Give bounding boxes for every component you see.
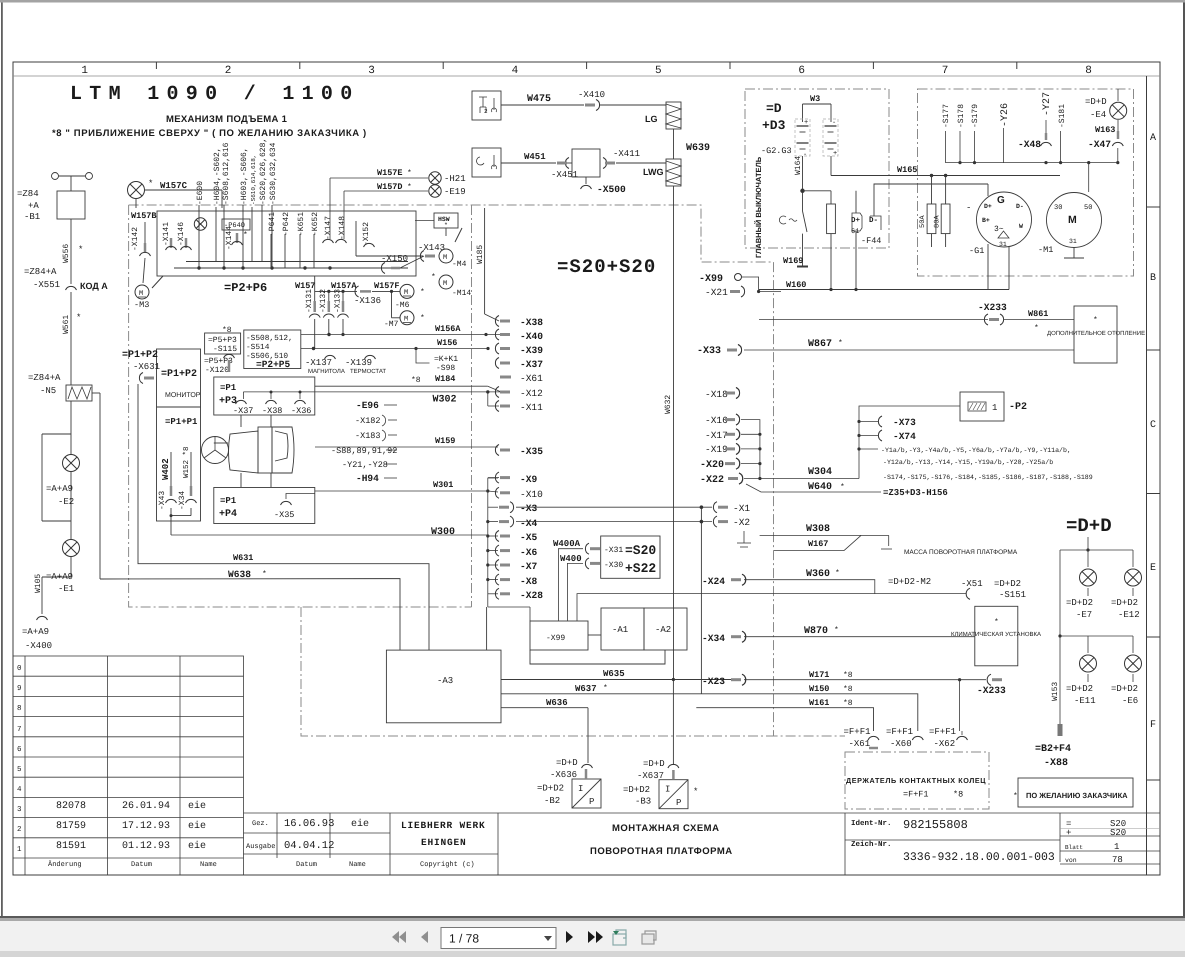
connector X400: [37, 616, 48, 620]
svg-text:Name: Name: [200, 861, 217, 869]
svg-text:Datum: Datum: [296, 861, 317, 869]
svg-text:ДЕРЖАТЕЛЬ КОНТАКТНЫХ КОЛЕЦ: ДЕРЖАТЕЛЬ КОНТАКТНЫХ КОЛЕЦ: [846, 776, 986, 785]
svg-text:*: *: [1013, 792, 1018, 801]
svg-text:5: 5: [655, 65, 662, 77]
connector X10: [495, 487, 510, 498]
svg-text:-P642: -P642: [282, 212, 291, 236]
main battery switch (главный выключатель): [779, 189, 835, 290]
device box климатическая установка: [975, 606, 1018, 666]
svg-text:-X1: -X1: [733, 503, 750, 514]
svg-text:ПОВОРОТНАЯ ПЛАТФОРМА: ПОВОРОТНАЯ ПЛАТФОРМА: [590, 846, 733, 857]
connector X9: [495, 472, 510, 483]
svg-text:-X23: -X23: [702, 676, 725, 687]
svg-text:=S20+S20: =S20+S20: [557, 256, 656, 278]
svg-text:-X99: -X99: [699, 274, 723, 285]
svg-text:=Z84: =Z84: [17, 189, 39, 199]
svg-text:=A+A9: =A+A9: [46, 484, 73, 494]
svg-text:-X40: -X40: [520, 331, 543, 342]
svg-text:-X137: -X137: [305, 358, 332, 368]
terminal X88 (=B2+F4): [1058, 724, 1063, 736]
svg-text:=B2+F4: =B2+F4: [1035, 744, 1071, 755]
svg-text:-Y27: -Y27: [1042, 92, 1053, 116]
connectors X61 X60 X62 (=F+F1): [844, 727, 957, 749]
svg-text:*: *: [78, 245, 83, 255]
revision table and title block: [13, 656, 1160, 875]
svg-text:01.12.93: 01.12.93: [122, 841, 170, 852]
svg-text:-X410: -X410: [578, 90, 605, 100]
svg-text:-M3: -M3: [134, 300, 149, 310]
svg-text:-X34: -X34: [178, 491, 187, 510]
svg-text:A: A: [1150, 133, 1156, 144]
svg-text:W152 *8: W152 *8: [182, 446, 191, 478]
svg-text:-X139: -X139: [345, 358, 372, 368]
svg-text:W632: W632: [664, 395, 673, 414]
svg-text:W157F: W157F: [374, 281, 400, 291]
svg-text:-E2: -E2: [58, 497, 74, 507]
svg-text:-X133: -X133: [334, 289, 343, 313]
svg-text:-Y26: -Y26: [1000, 103, 1011, 127]
svg-text:=P1: =P1: [220, 383, 237, 393]
connector X38: [495, 316, 510, 327]
svg-text:*: *: [444, 222, 448, 229]
svg-text:*: *: [603, 684, 608, 693]
svg-text:КЛИМАТИЧЕСКАЯ УСТАНОВКА: КЛИМАТИЧЕСКАЯ УСТАНОВКА: [951, 631, 1041, 638]
svg-text:-S179: -S179: [971, 104, 980, 128]
svg-text:-X24: -X24: [702, 576, 725, 587]
svg-text:-Y1a/b,-Y3,-Y4a/b,-Y5,-Y6a/b,-: -Y1a/b,-Y3,-Y4a/b,-Y5,-Y6a/b,-Y7a/b,-Y9,…: [881, 447, 1071, 454]
svg-text:=P1+P2: =P1+P2: [161, 369, 197, 380]
svg-text:C: C: [1150, 420, 1156, 431]
svg-text:-A2: -A2: [655, 625, 671, 635]
svg-text:*: *: [1093, 316, 1098, 325]
svg-text:2: 2: [225, 65, 232, 77]
svg-text:-X37: -X37: [233, 406, 253, 416]
svg-text:26.01.94: 26.01.94: [122, 801, 170, 812]
svg-text:*: *: [1034, 324, 1039, 333]
connector X3: [499, 502, 514, 513]
svg-text:-X88: -X88: [1044, 758, 1068, 769]
svg-text:W451: W451: [524, 152, 546, 162]
svg-text:B+: B+: [982, 217, 990, 224]
svg-text:-X20: -X20: [700, 460, 724, 471]
svg-text:W631: W631: [233, 553, 253, 563]
svg-text:-M7: -M7: [384, 320, 399, 329]
svg-text:=F+F1: =F+F1: [903, 790, 929, 800]
svg-text:-S181: -S181: [1058, 104, 1067, 128]
svg-text:-G2.G3: -G2.G3: [761, 146, 792, 156]
svg-text:=D+D2: =D+D2: [537, 784, 564, 794]
svg-text:9: 9: [17, 684, 22, 693]
svg-text:50: 50: [1084, 204, 1092, 212]
svg-text:ТЕРМОСТАТ: ТЕРМОСТАТ: [350, 368, 386, 375]
svg-text:ГЛАВНЫЙ ВЫКЛЮЧАТЕЛЬ: ГЛАВНЫЙ ВЫКЛЮЧАТЕЛЬ: [754, 156, 763, 258]
svg-text:W: W: [1019, 223, 1023, 230]
svg-text:*8 " ПРИБЛИЖЕНИЕ СВЕРХУ " ( П: *8 " ПРИБЛИЖЕНИЕ СВЕРХУ " ( ПО ЖЕЛАНИЮ З…: [52, 128, 367, 139]
svg-text:3336-932.18.00.001-003: 3336-932.18.00.001-003: [903, 851, 1055, 864]
starter motor M1: [1047, 193, 1102, 248]
=D+D3 box: [745, 89, 889, 248]
device list E96 X182 X183 S88 Y21 H94: [331, 400, 397, 484]
motors M6 and M7 wiring: [315, 276, 400, 318]
svg-text:*8: *8: [953, 790, 963, 800]
lamps E7 E12 E11 E6 wiring (=D+D): [1058, 537, 1133, 724]
lamp E1 (=A+A9): [63, 540, 80, 557]
svg-text:*: *: [994, 618, 999, 627]
svg-text:Name: Name: [349, 861, 366, 869]
svg-text:LTM 1090 / 1100: LTM 1090 / 1100: [70, 83, 360, 106]
svg-text:-X147: -X147: [324, 216, 333, 240]
svg-text:-X74: -X74: [893, 431, 916, 442]
svg-text:eie: eie: [188, 800, 206, 812]
svg-text:W475: W475: [527, 94, 551, 105]
wires W156A/W156/W184/W302/W159/W301/W300: [171, 335, 530, 622]
svg-text:Copyright (c): Copyright (c): [420, 860, 475, 869]
resistor N5: [66, 385, 92, 401]
svg-text:-E12: -E12: [1118, 610, 1140, 620]
svg-text:*8: *8: [411, 376, 421, 385]
=S20 region big boundary: [129, 205, 845, 736]
svg-text:W639: W639: [686, 143, 710, 154]
svg-text:W157E: W157E: [377, 168, 403, 178]
svg-text:W561: W561: [62, 315, 71, 334]
svg-text:-X132: -X132: [319, 289, 328, 313]
svg-text:=D+D2-M2: =D+D2-M2: [888, 577, 931, 587]
svg-text:*: *: [834, 626, 839, 635]
svg-text:1: 1: [1114, 842, 1119, 852]
svg-text:P: P: [589, 797, 594, 807]
wire W157E / W157D to lamps H21 / E19: [330, 178, 428, 239]
svg-text:-Y21,-Y28: -Y21,-Y28: [342, 460, 388, 470]
svg-text:=F+F1: =F+F1: [929, 727, 956, 737]
svg-text:=P5+P3: =P5+P3: [208, 336, 237, 345]
P2+P6 box: [157, 211, 416, 276]
connector X4: [499, 516, 514, 527]
svg-text:-S115: -S115: [213, 345, 237, 354]
svg-text:W157C: W157C: [160, 181, 188, 191]
svg-text:-B3: -B3: [635, 797, 651, 807]
svg-text:eie: eie: [188, 840, 206, 852]
svg-text:W400A: W400A: [553, 539, 581, 549]
svg-text:04.04.12: 04.04.12: [284, 840, 334, 852]
svg-text:78: 78: [1112, 855, 1123, 865]
lamp W157C: [128, 182, 145, 199]
svg-text:=D+D: =D+D: [643, 759, 665, 769]
svg-text:-S88,89,91,92: -S88,89,91,92: [331, 446, 397, 456]
svg-text:M: M: [443, 254, 447, 262]
lamp E6: [1125, 655, 1142, 672]
svg-text:-M6: -M6: [395, 301, 410, 310]
svg-text:61: 61: [851, 228, 859, 236]
svg-text:-X10: -X10: [520, 489, 543, 500]
svg-text:81759: 81759: [56, 821, 86, 832]
connector X73: [878, 416, 882, 427]
letters column: [1146, 76, 1148, 875]
w640 diagonal: [746, 484, 881, 492]
svg-text:=P1: =P1: [220, 496, 237, 506]
svg-text:W635: W635: [603, 669, 625, 679]
svg-text:50A: 50A: [919, 215, 927, 228]
svg-text:-X38: -X38: [262, 406, 282, 416]
svg-text:2: 2: [17, 825, 22, 834]
svg-text:ДОПОЛНИТЕЛЬНОЕ ОТОПЛЕНИЕ: ДОПОЛНИТЕЛЬНОЕ ОТОПЛЕНИЕ: [1047, 330, 1145, 337]
svg-text:W165: W165: [897, 165, 917, 175]
svg-text:M: M: [1068, 214, 1077, 226]
svg-text:W153: W153: [1051, 682, 1060, 701]
w304 vertical to P2: [859, 406, 960, 479]
relay contact F44: [852, 184, 988, 290]
svg-text:1: 1: [17, 846, 22, 854]
svg-text:-H604,-S602,: -H604,-S602,: [213, 147, 222, 205]
svg-text:W637: W637: [575, 684, 597, 694]
svg-text:-S620,626,628,: -S620,626,628,: [259, 138, 268, 205]
svg-text:=P1+P1: =P1+P1: [165, 417, 198, 427]
svg-text:-X120: -X120: [205, 366, 229, 375]
svg-text:W861: W861: [1028, 309, 1048, 319]
svg-text:-X12: -X12: [520, 388, 543, 399]
connector X5: [495, 531, 510, 542]
svg-text:-X148: -X148: [338, 216, 347, 240]
svg-text:-M4: -M4: [452, 260, 467, 269]
svg-text:-: -: [966, 203, 971, 213]
svg-text:*: *: [76, 313, 81, 323]
svg-text:W156: W156: [437, 338, 457, 348]
svg-text:I: I: [578, 784, 583, 794]
svg-text:D-: D-: [869, 217, 878, 225]
svg-text:W159: W159: [435, 436, 455, 446]
svg-text:-X43: -X43: [158, 491, 167, 510]
svg-text:4: 4: [512, 65, 519, 77]
svg-text:-P2: -P2: [1009, 402, 1027, 413]
svg-text:30: 30: [1054, 204, 1062, 212]
svg-text:-E96: -E96: [356, 400, 379, 411]
connector X7: [495, 560, 510, 571]
svg-text:-X38: -X38: [520, 317, 543, 328]
svg-text:=F+F1: =F+F1: [844, 727, 871, 737]
svg-text:+: +: [804, 119, 808, 127]
device HSW: [434, 213, 458, 228]
svg-text:=D+D2: =D+D2: [994, 579, 1021, 589]
svg-text:D+: D+: [984, 203, 992, 210]
svg-text:-X500: -X500: [597, 184, 626, 195]
device B1: [57, 191, 85, 219]
svg-text:G: G: [997, 195, 1005, 206]
svg-text:-X146: -X146: [177, 222, 186, 246]
svg-text:=A+A9: =A+A9: [22, 627, 49, 637]
svg-text:=Z84+A: =Z84+A: [24, 267, 57, 277]
column ticks: [155, 62, 157, 69]
wire W157 / W157A / W157F row: [295, 281, 400, 291]
connector X11: [495, 401, 510, 412]
svg-text:-X21: -X21: [705, 287, 728, 298]
svg-text:W400: W400: [560, 554, 582, 564]
connector X35: [495, 445, 510, 456]
svg-text:*8: *8: [843, 671, 853, 680]
svg-text:W308: W308: [806, 524, 830, 535]
svg-text:W636: W636: [546, 698, 568, 708]
pdf viewer toolbar: [392, 931, 428, 943]
svg-text:82078: 82078: [56, 801, 86, 812]
svg-text:=A+A9: =A+A9: [46, 572, 73, 582]
svg-text:-X182: -X182: [355, 416, 381, 426]
svg-text:-X28: -X28: [520, 590, 543, 601]
generator G1 (3~): [977, 192, 1032, 247]
svg-text:W185: W185: [476, 245, 485, 264]
svg-text:81591: 81591: [56, 841, 86, 852]
svg-text:-X22: -X22: [700, 475, 724, 486]
svg-text:-X33: -X33: [697, 346, 721, 357]
svg-text:4: 4: [17, 786, 22, 794]
svg-text:31: 31: [999, 241, 1007, 248]
svg-text:EHINGEN: EHINGEN: [421, 837, 467, 848]
svg-text:Zeich-Nr.: Zeich-Nr.: [851, 840, 892, 849]
svg-text:*: *: [420, 288, 425, 297]
svg-text:-E4: -E4: [1090, 110, 1106, 120]
svg-text:-S514: -S514: [246, 343, 270, 352]
svg-text:-X73: -X73: [893, 417, 916, 428]
svg-text:-X136: -X136: [354, 296, 381, 306]
svg-text:-H94: -H94: [356, 473, 379, 484]
connector X551: [66, 286, 77, 290]
svg-text:E: E: [1150, 563, 1156, 574]
batteries G2.G3: [795, 104, 838, 211]
svg-text:1: 1: [81, 65, 88, 77]
svg-text:-X150: -X150: [381, 254, 408, 264]
svg-text:*8: *8: [843, 699, 853, 708]
devices S177 S178 S179 Y26 Y27 S181 bus: [942, 92, 1067, 128]
svg-text:=D+D2: =D+D2: [1111, 684, 1138, 694]
svg-text:1: 1: [992, 403, 997, 413]
svg-text:*8: *8: [843, 685, 853, 694]
title block: [244, 812, 1161, 814]
svg-text:-A1: -A1: [612, 625, 628, 635]
svg-text:Ident-Nr.: Ident-Nr.: [851, 819, 892, 828]
svg-text:*: *: [420, 314, 425, 323]
connector X28: [495, 588, 510, 599]
generator box: [918, 89, 1134, 276]
seat console box =P1+P4: [214, 488, 315, 524]
svg-text:*8: *8: [222, 326, 232, 335]
svg-text:=D+D2: =D+D2: [1066, 598, 1093, 608]
svg-text:=Z84+A: =Z84+A: [28, 373, 61, 383]
svg-text:W640: W640: [808, 482, 832, 493]
relay P640: [222, 219, 250, 230]
svg-text:МЕХАНИЗМ ПОДЪЕМА 1: МЕХАНИЗМ ПОДЪЕМА 1: [166, 114, 288, 125]
svg-text:-X233: -X233: [977, 685, 1006, 696]
svg-text:=D: =D: [766, 101, 782, 116]
svg-text:-E11: -E11: [1074, 696, 1096, 706]
svg-text:-S608,612,616: -S608,612,616: [222, 142, 231, 205]
connector X40: [495, 329, 510, 340]
svg-text:=K+K1: =K+K1: [434, 355, 458, 364]
svg-text:-X61: -X61: [520, 373, 543, 384]
row letters: [1150, 133, 1156, 731]
svg-text:P: P: [676, 798, 681, 808]
svg-text:*: *: [840, 483, 845, 492]
svg-text:-X7: -X7: [520, 561, 538, 572]
svg-text:6: 6: [798, 65, 805, 77]
svg-text:F: F: [1150, 720, 1156, 731]
svg-text:W157D: W157D: [377, 182, 403, 192]
svg-text:982155808: 982155808: [903, 818, 968, 832]
svg-text:-F44: -F44: [861, 236, 881, 246]
svg-text:-X636: -X636: [550, 770, 577, 780]
svg-text:=F+F1: =F+F1: [886, 727, 913, 737]
svg-text:-B2: -B2: [544, 796, 560, 806]
svg-text:-X152: -X152: [362, 222, 371, 246]
svg-text:W638: W638: [228, 569, 251, 580]
svg-text:-G1: -G1: [969, 246, 984, 256]
note box по желанию заказчика: [1018, 778, 1133, 807]
X3/X4 wires to X1/X2: [516, 506, 712, 508]
svg-text:W161: W161: [809, 698, 829, 708]
svg-text:eie: eie: [188, 820, 206, 832]
connector X37: [495, 358, 510, 369]
svg-text:=S20: =S20: [625, 543, 656, 558]
svg-text:W870: W870: [804, 626, 828, 637]
antenna-like symbol: [52, 173, 59, 180]
svg-text:-S630,632,634: -S630,632,634: [269, 142, 278, 205]
svg-text:W169: W169: [783, 256, 803, 266]
svg-text:МОНТАЖНАЯ СХЕМА: МОНТАЖНАЯ СХЕМА: [612, 823, 719, 834]
svg-text:Blatt: Blatt: [1065, 844, 1083, 851]
svg-text:-X36: -X36: [291, 406, 311, 416]
svg-text:7: 7: [17, 726, 22, 734]
svg-text:-X131: -X131: [305, 289, 314, 313]
svg-text:von: von: [1065, 857, 1077, 864]
svg-text:W150: W150: [809, 684, 829, 694]
svg-text:+S22: +S22: [625, 561, 656, 576]
svg-text:5: 5: [17, 766, 22, 774]
svg-text:Ausgabe: Ausgabe: [246, 842, 275, 851]
svg-text:*: *: [243, 231, 248, 240]
svg-text:LIEBHERR WERK: LIEBHERR WERK: [401, 820, 486, 831]
svg-text:-K651: -K651: [297, 212, 306, 236]
device box дополнительное отопление: [1074, 306, 1117, 363]
column numbers: [81, 65, 1091, 77]
svg-text:-X99: -X99: [546, 634, 565, 643]
svg-text:-X35: -X35: [274, 510, 294, 520]
svg-text:-X3: -X3: [520, 503, 538, 514]
svg-text:W157B: W157B: [131, 211, 157, 221]
X16-X20 bus to w304: [741, 420, 760, 479]
svg-text:W304: W304: [808, 467, 832, 478]
svg-text:-M14: -M14: [452, 289, 471, 298]
svg-text:-S178: -S178: [957, 104, 966, 128]
svg-text:-A3: -A3: [437, 676, 453, 686]
connector X6: [495, 545, 510, 556]
svg-text:17.12.93: 17.12.93: [122, 821, 170, 832]
coil LWG: [666, 159, 681, 186]
svg-text:W556: W556: [62, 244, 71, 263]
svg-text:3: 3: [368, 65, 375, 77]
motor M3: [135, 285, 149, 299]
revision rows numbers: [17, 664, 22, 854]
svg-text:D+: D+: [851, 217, 861, 225]
svg-text:B: B: [1150, 273, 1156, 284]
svg-text:Gez.: Gez.: [252, 820, 269, 828]
svg-text:-S174,-S175,-S176,-S184,-S185,: -S174,-S175,-S176,-S184,-S185,-S186,-S18…: [883, 474, 1093, 481]
svg-text:2: 2: [484, 108, 488, 115]
w631 / w638: [100, 384, 429, 650]
svg-text:LWG: LWG: [643, 167, 664, 177]
svg-text:-E6: -E6: [1122, 696, 1138, 706]
svg-text:W300: W300: [431, 527, 455, 538]
svg-text:-N5: -N5: [40, 386, 56, 396]
svg-text:-X19: -X19: [705, 444, 728, 455]
svg-text:W164: W164: [794, 156, 803, 175]
svg-text:W160: W160: [786, 280, 806, 290]
operator seat: [202, 415, 295, 487]
